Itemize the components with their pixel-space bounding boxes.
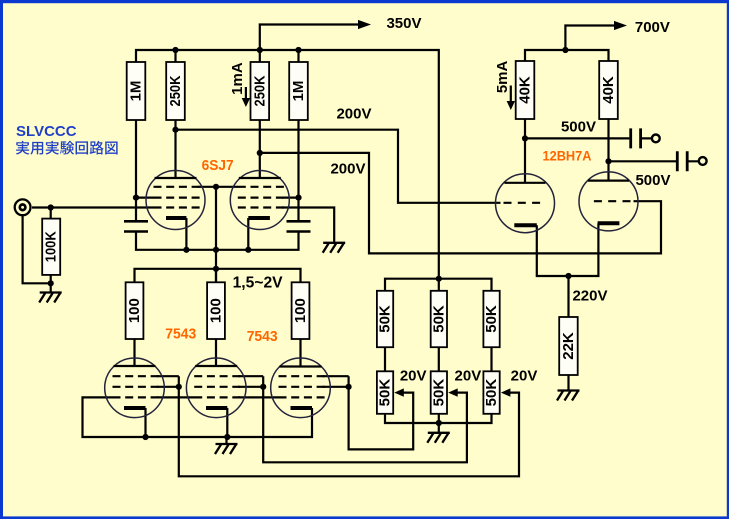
svg-text:50K: 50K <box>377 379 394 407</box>
svg-text:1M: 1M <box>128 81 145 102</box>
svg-text:20V: 20V <box>455 368 482 385</box>
svg-text:5mA: 5mA <box>494 60 511 93</box>
svg-text:7543: 7543 <box>247 329 278 345</box>
svg-text:20V: 20V <box>400 368 427 385</box>
svg-text:7543: 7543 <box>165 326 196 342</box>
svg-text:1M: 1M <box>290 81 307 102</box>
svg-text:250K: 250K <box>251 75 268 106</box>
svg-text:12BH7A: 12BH7A <box>543 148 592 164</box>
svg-text:50K: 50K <box>377 305 394 333</box>
svg-text:500V: 500V <box>635 172 670 189</box>
svg-text:40K: 40K <box>600 76 617 104</box>
svg-text:50K: 50K <box>430 379 447 407</box>
svg-text:500V: 500V <box>561 119 596 136</box>
svg-text:SLVCCC: SLVCCC <box>16 123 77 140</box>
svg-text:50K: 50K <box>483 379 500 407</box>
svg-text:1mA: 1mA <box>229 62 246 95</box>
svg-text:100: 100 <box>126 298 143 323</box>
svg-text:6SJ7: 6SJ7 <box>202 158 234 174</box>
svg-text:22K: 22K <box>560 332 577 360</box>
svg-text:200V: 200V <box>336 106 371 123</box>
svg-text:350V: 350V <box>386 15 421 32</box>
svg-text:50K: 50K <box>430 305 447 333</box>
svg-text:100K: 100K <box>43 231 60 262</box>
svg-text:700V: 700V <box>635 19 670 36</box>
svg-text:100: 100 <box>208 298 225 323</box>
svg-text:40K: 40K <box>517 76 534 104</box>
svg-text:50K: 50K <box>483 305 500 333</box>
svg-text:200V: 200V <box>330 161 365 178</box>
svg-text:20V: 20V <box>511 368 538 385</box>
svg-text:250K: 250K <box>167 75 184 106</box>
svg-text:1,5~2V: 1,5~2V <box>233 275 284 292</box>
svg-text:100: 100 <box>292 298 309 323</box>
svg-text:220V: 220V <box>572 288 607 305</box>
